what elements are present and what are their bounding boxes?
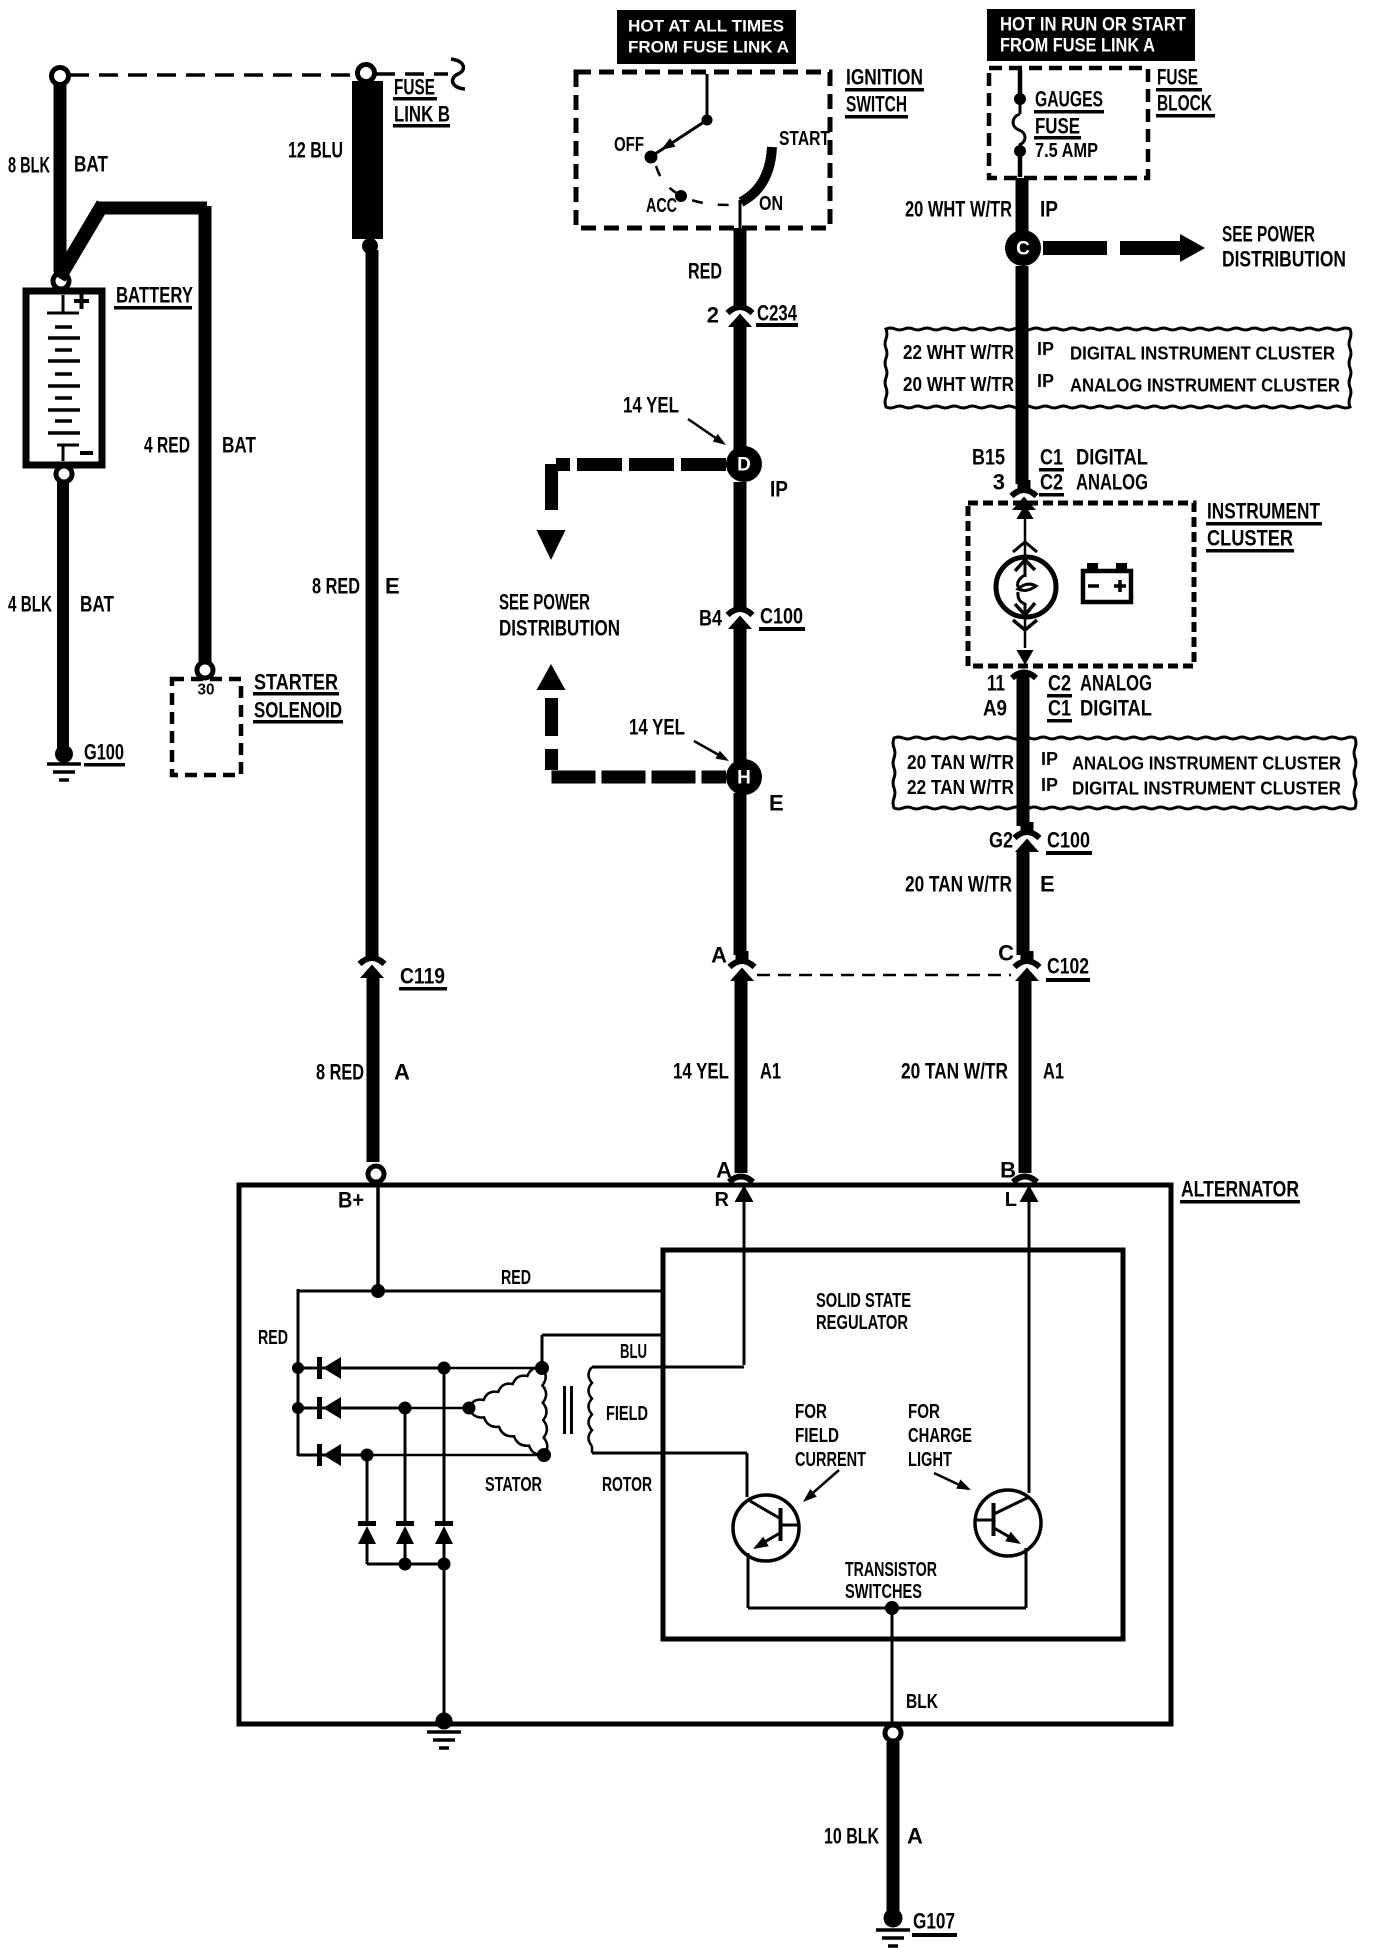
svg-text:GAUGES: GAUGES (1035, 87, 1103, 112)
wire: 20 TAN W/TR cluster to C100 (1017, 674, 1030, 826)
svg-text:HOT AT ALL TIMES: HOT AT ALL TIMES (628, 17, 784, 36)
svg-text:IP: IP (1041, 749, 1058, 769)
svg-text:8 RED: 8 RED (316, 1060, 364, 1085)
wire: negative bus (367, 1563, 444, 1566)
callout box: instrument cluster wire codes (upper) (885, 328, 1351, 408)
fuse feed stub (1018, 70, 1023, 95)
label: battery + sign (74, 299, 89, 303)
ignition switch: feed stub (706, 74, 709, 120)
wire: 20 WHT W/TR fuse to splice C (1016, 178, 1029, 234)
svg-text:11: 11 (987, 671, 1005, 696)
terminal: alternator ground (open circle) (885, 1725, 901, 1741)
wire: 14 YEL A1 to alternator (735, 981, 748, 1166)
svg-text:IP: IP (770, 477, 788, 502)
leader arrow to charge light transistor (934, 1473, 968, 1489)
svg-text:ANALOG INSTRUMENT CLUSTER: ANALOG INSTRUMENT CLUSTER (1070, 375, 1340, 396)
leader arrow to splice H (694, 741, 726, 759)
svg-text:4 BLK: 4 BLK (8, 592, 52, 617)
rotor field coil (589, 1367, 593, 1446)
svg-text:BATTERY: BATTERY (116, 283, 193, 308)
svg-text:ROTOR: ROTOR (602, 1474, 652, 1496)
ignition switch dashed box (576, 72, 830, 228)
svg-text:BAT: BAT (74, 152, 108, 177)
terminal: alternator R input flare (729, 1177, 753, 1183)
svg-text:C100: C100 (760, 604, 803, 629)
svg-text:8 BLK: 8 BLK (8, 153, 50, 178)
connector A/C102 (ignition side) (736, 951, 749, 961)
svg-text:R: R (715, 1189, 730, 1211)
svg-text:E: E (385, 574, 400, 599)
svg-text:C119: C119 (400, 964, 445, 989)
dashed feed: splice D to power distribution (left-down arrow) (556, 458, 726, 471)
wire: 12 BLU / 8 RED vertical from fuse link B to alternator B+ (366, 250, 379, 952)
alternator box (239, 1185, 1171, 1724)
svg-text:REGULATOR: REGULATOR (816, 1312, 908, 1334)
stator windings (delta) (469, 1368, 542, 1408)
fuse link B element (thick bar) (352, 81, 383, 239)
svg-text:C2: C2 (1048, 671, 1071, 696)
wire: RED internal to regulator (378, 1290, 661, 1293)
wire: emitter bus (748, 1607, 1026, 1610)
svg-text:TRANSISTOR: TRANSISTOR (845, 1559, 937, 1581)
svg-text:C100: C100 (1047, 828, 1090, 853)
wire: field bottom to field transistor (591, 1446, 594, 1453)
node: battery positive terminal (open circle) (53, 273, 69, 289)
node: battery positive feed junction (open circle) (52, 68, 69, 85)
svg-text:ANALOG: ANALOG (1080, 671, 1152, 696)
rectifier diode D1 (top) (298, 1367, 444, 1370)
svg-text:CHARGE: CHARGE (908, 1425, 972, 1447)
dashed link to C102 (757, 974, 1011, 977)
svg-text:A: A (907, 1824, 923, 1849)
svg-text:22 TAN W/TR: 22 TAN W/TR (907, 777, 1014, 799)
ignition switch: dashed travel arc (656, 166, 732, 205)
rectifier diode D2 (middle) (298, 1407, 405, 1410)
wire: RED to rectifier bus (298, 1290, 378, 1293)
callout box: instrument cluster wire codes (lower) (893, 737, 1356, 809)
svg-text:SOLID STATE: SOLID STATE (816, 1290, 911, 1312)
svg-text:IP: IP (1037, 339, 1054, 359)
dashed feed: splice H to power distribution (left-up arrow) (537, 664, 566, 690)
leader arrow to field transistor (806, 1470, 839, 1499)
svg-text:IGNITION: IGNITION (846, 65, 923, 90)
terminal: alternator L input flare (1013, 1177, 1037, 1183)
svg-text:ON: ON (759, 193, 783, 215)
svg-text:D: D (737, 455, 751, 476)
svg-text:DISTRIBUTION: DISTRIBUTION (1222, 247, 1346, 272)
connector C100 (B4) (734, 599, 747, 609)
wire: RED ignition output (734, 228, 747, 301)
wire: dashed continuation to harness break squiggle (376, 72, 448, 76)
svg-text:FUSE: FUSE (394, 75, 435, 100)
battery B1 outline (26, 291, 102, 465)
svg-text:FROM FUSE LINK A: FROM FUSE LINK A (628, 38, 789, 57)
node: fuse link B top terminal (open circle) (358, 65, 375, 82)
svg-text:BLU: BLU (620, 1341, 647, 1363)
svg-text:CLUSTER: CLUSTER (1207, 526, 1293, 551)
svg-text:FIELD: FIELD (606, 1403, 648, 1425)
svg-text:BLOCK: BLOCK (1157, 91, 1212, 116)
node: B+ junction (371, 1284, 385, 1298)
svg-text:BAT: BAT (222, 433, 256, 458)
svg-text:FUSE: FUSE (1035, 114, 1080, 139)
svg-text:INSTRUMENT: INSTRUMENT (1207, 499, 1320, 524)
svg-text:DIGITAL: DIGITAL (1076, 445, 1148, 470)
svg-text:SEE POWER: SEE POWER (1222, 222, 1315, 247)
svg-text:FUSE: FUSE (1157, 65, 1198, 90)
svg-text:14 YEL: 14 YEL (623, 393, 679, 418)
ignition switch: ON output stub (739, 200, 742, 231)
label: battery - sign (80, 451, 93, 455)
svg-text:RED: RED (258, 1327, 288, 1349)
svg-text:A9: A9 (983, 696, 1007, 721)
gauges fuse element (1014, 93, 1026, 105)
transistor Q1 (field current) (733, 1495, 799, 1561)
banner: HOT AT ALL TIMES FROM FUSE LINK A (617, 10, 796, 64)
svg-text:H: H (737, 768, 751, 789)
svg-text:ANALOG INSTRUMENT CLUSTER: ANALOG INSTRUMENT CLUSTER (1072, 753, 1341, 774)
svg-text:A: A (711, 943, 727, 968)
svg-text:SWITCH: SWITCH (846, 92, 907, 117)
svg-text:2: 2 (707, 303, 719, 328)
svg-text:22 WHT W/TR: 22 WHT W/TR (903, 342, 1014, 364)
svg-text:B+: B+ (338, 1188, 364, 1213)
svg-text:C1: C1 (1040, 445, 1063, 470)
svg-text:ACC: ACC (646, 195, 677, 217)
connector C234 (734, 297, 747, 307)
svg-text:20 TAN W/TR: 20 TAN W/TR (907, 752, 1014, 774)
cluster internal feed with arrows (1017, 504, 1034, 519)
connector: cluster input (1018, 480, 1031, 490)
wire: 4 RED BAT vertical (199, 206, 212, 663)
charge indicator lamp (996, 557, 1056, 617)
wire: 10 BLK A to G107 (887, 1742, 900, 1917)
wire: RED to splice D (734, 327, 747, 450)
wire: dashed link battery to fuse link B (70, 73, 357, 77)
svg-text:FIELD: FIELD (795, 1425, 839, 1447)
svg-text:20 TAN W/TR: 20 TAN W/TR (901, 1059, 1008, 1084)
svg-text:E: E (1040, 872, 1055, 897)
connector C100 (G2) (1021, 822, 1034, 832)
svg-text:C: C (1016, 239, 1030, 260)
wire: horizontal run to 4 RED column (96, 202, 207, 215)
svg-text:B4: B4 (699, 606, 723, 631)
wire: 4 BLK BAT vertical (57, 482, 69, 750)
svg-text:SWITCHES: SWITCHES (845, 1581, 922, 1603)
negative diode D4 (358, 1521, 376, 1526)
svg-text:14 YEL: 14 YEL (629, 715, 685, 740)
harness break squiggle (451, 59, 465, 89)
svg-text:DISTRIBUTION: DISTRIBUTION (499, 616, 620, 641)
wire: 20 WHT W/TR splice C to cluster (1016, 266, 1029, 484)
instrument cluster dashed box (968, 503, 1194, 666)
battery plates (62, 295, 65, 313)
svg-text:STARTER: STARTER (254, 670, 338, 695)
svg-text:C: C (998, 941, 1014, 966)
node: battery negative terminal (open circle) (56, 466, 72, 482)
wire: BLK ground lead inside (891, 1608, 894, 1724)
svg-text:B: B (1000, 1158, 1016, 1183)
wire: bus to case ground (443, 1564, 446, 1722)
node: starter solenoid terminal 30 (open circle) (197, 662, 213, 678)
svg-text:DIGITAL INSTRUMENT CLUSTER: DIGITAL INSTRUMENT CLUSTER (1072, 778, 1341, 799)
wire: 14 YEL H to connector A (734, 793, 747, 955)
svg-text:8 RED: 8 RED (312, 574, 360, 599)
ignition switch: ACC contact (675, 190, 687, 202)
ignition switch: OFF contact (645, 151, 658, 164)
svg-text:DIGITAL INSTRUMENT CLUSTER: DIGITAL INSTRUMENT CLUSTER (1070, 343, 1335, 364)
wire: 14 YEL C100 to splice H (734, 629, 747, 762)
wire: 8 RED A below C119 (367, 978, 380, 1162)
svg-text:RED: RED (688, 259, 722, 284)
ignition switch: START-ON contact arc (741, 147, 772, 202)
rectifier diode D3 (bottom) (298, 1454, 367, 1457)
wire: 20 TAN W/TR E (1017, 852, 1030, 955)
wire: 20 TAN W/TR A1 to alternator (1019, 981, 1032, 1166)
svg-text:C102: C102 (1047, 954, 1089, 979)
svg-text:30: 30 (198, 682, 215, 699)
svg-text:FROM FUSE LINK A: FROM FUSE LINK A (1000, 36, 1155, 57)
svg-text:SOLENOID: SOLENOID (254, 698, 342, 723)
svg-text:20 TAN W/TR: 20 TAN W/TR (905, 872, 1012, 897)
svg-text:SEE POWER: SEE POWER (499, 590, 590, 615)
svg-text:BLK: BLK (906, 1691, 938, 1713)
wire: BLU stator tap to regulator (541, 1335, 544, 1368)
svg-text:B15: B15 (972, 445, 1005, 470)
banner: HOT IN RUN OR START FROM FUSE LINK A (987, 9, 1195, 61)
svg-text:12 BLU: 12 BLU (288, 138, 343, 163)
svg-text:7.5 AMP: 7.5 AMP (1035, 140, 1098, 162)
node: emitter bus junction (885, 1601, 899, 1615)
svg-text:STATOR: STATOR (485, 1474, 542, 1496)
splice D (726, 446, 762, 482)
svg-text:IP: IP (1040, 197, 1058, 222)
svg-text:10 BLK: 10 BLK (824, 1824, 879, 1849)
svg-text:CURRENT: CURRENT (795, 1449, 866, 1471)
ground G100 (55, 745, 73, 763)
svg-text:A1: A1 (1043, 1059, 1064, 1084)
svg-text:E: E (769, 791, 784, 816)
negative diode D6 (435, 1521, 453, 1526)
svg-text:G2: G2 (989, 828, 1013, 853)
svg-text:BAT: BAT (80, 592, 114, 617)
svg-text:20 WHT W/TR: 20 WHT W/TR (903, 374, 1014, 396)
leader arrow to splice D (688, 419, 723, 443)
svg-text:LIGHT: LIGHT (908, 1449, 952, 1471)
wire: 8 BLK BAT vertical (54, 83, 67, 272)
wire: B+ internal lead (376, 1187, 380, 1291)
svg-text:ANALOG: ANALOG (1076, 470, 1148, 495)
wire: field top to R terminal (592, 1366, 744, 1369)
svg-text:L: L (1005, 1189, 1017, 1211)
svg-text:A: A (716, 1158, 732, 1183)
negative diode D5 (396, 1521, 414, 1526)
svg-text:DIGITAL: DIGITAL (1080, 696, 1152, 721)
transistor Q2 (charge light) (975, 1490, 1041, 1556)
svg-text:HOT IN RUN OR START: HOT IN RUN OR START (1000, 15, 1186, 36)
ground: alternator case (436, 1713, 453, 1730)
svg-text:3: 3 (993, 470, 1005, 495)
ignition switch: pivot node (702, 115, 713, 126)
svg-text:OFF: OFF (614, 134, 644, 156)
wire: phase drops to negative diodes (443, 1368, 446, 1523)
connector: cluster output flare (1012, 673, 1036, 679)
svg-text:20 WHT W/TR: 20 WHT W/TR (905, 197, 1012, 222)
fuse block dashed box (989, 68, 1148, 178)
wire: battery + to 4 RED riser (diagonal) (59, 204, 103, 278)
terminal: alternator B+ (open circle) (368, 1166, 384, 1182)
svg-text:C234: C234 (757, 301, 798, 326)
svg-text:A1: A1 (760, 1059, 781, 1084)
svg-text:4 RED: 4 RED (144, 433, 190, 458)
svg-text:FOR: FOR (795, 1401, 827, 1423)
regulator box (663, 1250, 1123, 1639)
svg-text:RED: RED (501, 1267, 531, 1289)
svg-text:START: START (779, 128, 830, 150)
svg-text:14 YEL: 14 YEL (673, 1059, 729, 1084)
svg-text:G100: G100 (84, 740, 124, 765)
gauge: battery symbol icon (1083, 571, 1131, 602)
svg-text:IP: IP (1037, 371, 1054, 391)
svg-text:C2: C2 (1040, 470, 1063, 495)
svg-text:G107: G107 (913, 1909, 955, 1934)
svg-text:IP: IP (1041, 775, 1058, 795)
splice C (1005, 230, 1041, 266)
rotor core lines (563, 1386, 566, 1434)
svg-text:LINK B: LINK B (394, 102, 450, 127)
svg-text:C1: C1 (1048, 696, 1071, 721)
connector C119 (366, 948, 379, 958)
svg-text:FOR: FOR (908, 1401, 940, 1423)
svg-text:ALTERNATOR: ALTERNATOR (1181, 1177, 1299, 1202)
ground G107 (884, 1909, 903, 1928)
ignition switch: wiper to OFF (655, 120, 707, 154)
starter solenoid dashed box (172, 679, 241, 775)
svg-text:A: A (394, 1060, 410, 1085)
dashed feed: splice C to power distribution (right arrow) (1043, 241, 1180, 255)
wire: 14 YEL D to C100 (734, 482, 747, 603)
splice H (726, 759, 762, 795)
connector C102 (1021, 951, 1034, 961)
